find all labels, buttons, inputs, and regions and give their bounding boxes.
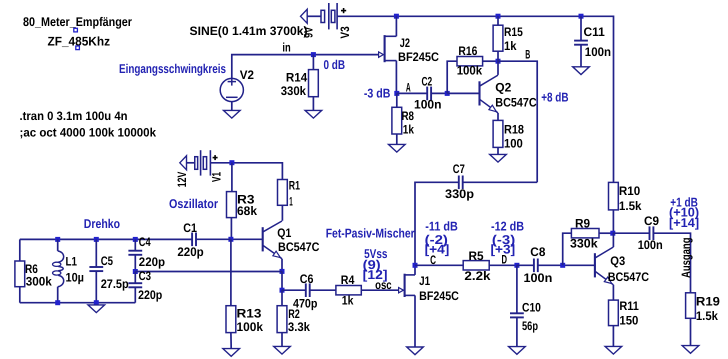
blue annotation [+3] [491, 242, 516, 257]
svg-text:1k: 1k [403, 123, 414, 137]
label R3 [237, 193, 255, 207]
ground under tank [88, 305, 105, 313]
voltage source V1 battery [180, 150, 218, 175]
resistor R14 [309, 70, 319, 97]
wire R5 to node D [489, 264, 517, 266]
junction R15 top on rail [496, 14, 501, 19]
wire +9V top rail [337, 16, 613, 182]
value 150 of R11 [619, 313, 638, 327]
svg-text:220p: 220p [139, 255, 166, 269]
label R5 [469, 249, 484, 263]
wire down to R2 [281, 290, 283, 306]
wire V1 node down to R3 [231, 163, 233, 192]
blue annotation (-2) [425, 232, 448, 247]
wire C11 bottom lead [580, 45, 582, 67]
svg-text:R1: R1 [289, 179, 300, 193]
svg-text:R16: R16 [458, 44, 477, 58]
wire R13 down [230, 239, 232, 305]
wire R6 bottom lead [19, 287, 21, 303]
svg-text:BF245C: BF245C [419, 289, 459, 303]
capacitor C5 [89, 267, 103, 271]
wire node B [498, 61, 537, 182]
label C4 [139, 235, 151, 249]
svg-text:BC547C: BC547C [608, 270, 649, 284]
wire Q3 collector up [612, 233, 614, 247]
ground under R11 [605, 346, 622, 354]
value 100n of C8 [524, 271, 553, 285]
svg-text:R13: R13 [237, 307, 262, 321]
wire Q1 base [231, 238, 262, 240]
capacitor C7 [459, 176, 463, 190]
junction C1-R3-base node [228, 237, 233, 242]
label BF245C of J2 [398, 50, 439, 64]
value 1.5k of R10 [619, 199, 642, 213]
resistor R11 [609, 300, 619, 326]
svg-text:1k: 1k [504, 39, 517, 53]
ground under R8 [389, 144, 406, 152]
net label in [282, 40, 290, 54]
value 3.3k of R2 [288, 320, 310, 334]
wire C11 top lead [580, 16, 582, 40]
svg-text:+8 dB: +8 dB [541, 89, 568, 104]
junction C11 on rail [579, 14, 584, 19]
transistor Q2 [480, 75, 499, 113]
junction C5 bottom [94, 300, 99, 305]
svg-text:R15: R15 [504, 25, 523, 39]
label R9 [575, 216, 590, 230]
wire tank tap to emitter [135, 271, 282, 273]
svg-text:L1: L1 [66, 254, 78, 268]
svg-text:C10: C10 [522, 300, 541, 314]
wire J2 source down [395, 61, 397, 94]
label R10 [619, 184, 640, 198]
value 1k of R15 [504, 39, 517, 53]
net label B [525, 48, 530, 62]
ground under R13 [223, 349, 240, 357]
svg-text:100k: 100k [237, 320, 264, 334]
wire C1 to base node [196, 238, 231, 240]
label C7 [453, 162, 465, 176]
value 68k of R3 [237, 204, 257, 218]
wire collector to C9 [613, 232, 649, 234]
svg-text:100n: 100n [638, 238, 663, 252]
value 330p of C7 [445, 187, 474, 201]
svg-text:R11: R11 [619, 299, 639, 313]
svg-text:R18: R18 [504, 123, 524, 137]
svg-text:220p: 220p [177, 245, 204, 259]
label C2 [422, 75, 433, 89]
capacitor C1 [192, 233, 196, 247]
svg-text:Drehko: Drehko [84, 216, 120, 231]
junction J2 drain on rail [394, 14, 399, 19]
svg-text:R14: R14 [286, 70, 307, 84]
svg-text:Q1: Q1 [277, 226, 291, 240]
voltage source V2 [220, 78, 243, 102]
svg-text:R5: R5 [469, 249, 484, 263]
value 470p of C6 [293, 296, 318, 310]
svg-text:;ac oct 4000 100k 10000k: ;ac oct 4000 100k 10000k [20, 125, 157, 139]
resistor R5 [463, 261, 489, 270]
label R15 [504, 25, 523, 39]
wire C5 bottom lead [95, 271, 97, 303]
svg-text:BC547C: BC547C [495, 96, 536, 110]
label C9 [644, 214, 659, 228]
label R16 [458, 44, 477, 58]
svg-text:[+4]: [+4] [425, 242, 450, 257]
svg-text:C9: C9 [644, 214, 659, 228]
svg-text:470p: 470p [293, 296, 318, 310]
capacitor C8 [534, 259, 538, 273]
wire L1 bottom lead [57, 287, 59, 303]
title line 1 [23, 15, 132, 29]
capacitor C4 [128, 251, 142, 255]
voltage source V3 battery [301, 3, 347, 29]
blue annotation 0 dB [324, 57, 346, 72]
transistor Q3 [595, 247, 614, 285]
svg-text:C3: C3 [139, 269, 151, 283]
resistor R4 [336, 286, 361, 295]
wire node D to C8 [517, 264, 534, 266]
svg-text:Q3: Q3 [610, 254, 625, 268]
blue annotation [12] [363, 267, 388, 282]
junction Q3 collector node [610, 231, 615, 236]
svg-text:Oszillator: Oszillator [169, 196, 218, 211]
junction R9 tap [560, 263, 565, 268]
text anchor marker 2 [76, 46, 80, 50]
svg-text:C5: C5 [101, 254, 113, 268]
label C8 [530, 245, 545, 259]
label L1 [66, 254, 78, 268]
junction C6 tap [280, 288, 285, 293]
svg-text:V1: V1 [209, 172, 223, 182]
svg-text:1k: 1k [342, 293, 354, 307]
label 12V [175, 171, 189, 187]
ground under J1 [407, 347, 424, 355]
label R13 [237, 307, 262, 321]
svg-text:Q2: Q2 [495, 81, 511, 95]
net label osc [375, 278, 392, 292]
resistor R16 [457, 57, 483, 66]
svg-text:Eingangsschwingkreis: Eingangsschwingkreis [119, 61, 226, 76]
wire R8 bottom lead [396, 134, 398, 144]
ground under C10 [509, 347, 526, 355]
wire R1 to Q1 collector [281, 205, 283, 221]
value 100n of C9 [638, 238, 663, 252]
label V2 [240, 68, 254, 82]
capacitor C6 [306, 283, 310, 297]
value 1k of R8 [403, 123, 414, 137]
blue annotation (+10) [669, 205, 699, 220]
junction tank tap [133, 269, 138, 274]
value 330k of R9 [570, 237, 598, 251]
svg-text:BC547C: BC547C [278, 240, 320, 254]
wire R10 bottom lead [612, 210, 614, 233]
svg-text:R8: R8 [402, 109, 415, 123]
wire R19 bottom lead [690, 318, 692, 345]
value 2.2k of R5 [464, 269, 490, 283]
svg-text:220p: 220p [138, 288, 163, 302]
ground under R18 [490, 154, 507, 162]
svg-text:J1: J1 [419, 274, 430, 288]
blue annotation -3 dB [364, 85, 391, 100]
value 27.5p of C5 [101, 277, 129, 291]
label J1 [419, 274, 430, 288]
wire R14 bottom lead [312, 97, 314, 111]
capacitor C10 [510, 313, 524, 317]
value 220p of C3 [138, 288, 163, 302]
label V1 [209, 172, 223, 182]
svg-text:B: B [525, 48, 530, 62]
label C1 [183, 221, 197, 235]
wire J1 drain up [414, 265, 416, 275]
svg-text:J2: J2 [400, 36, 410, 50]
wire C4 bottom lead [134, 255, 136, 272]
label BC547C of Q2 [495, 96, 536, 110]
svg-text:330p: 330p [445, 187, 474, 201]
net label D [502, 252, 508, 266]
capacitor C9 [650, 226, 654, 240]
value 100n of C2 [414, 98, 442, 112]
wire R15 bottom lead [497, 51, 499, 61]
label R8 [402, 109, 415, 123]
net label C [430, 253, 436, 267]
svg-text:.tran 0 3.1m 100u 4n: .tran 0 3.1m 100u 4n [20, 109, 128, 123]
wire C10 top lead [516, 265, 518, 313]
junction R14 tap [311, 52, 316, 57]
resistor R2 [277, 306, 287, 333]
jfet J2 [379, 35, 397, 62]
value 100k of R16 [457, 64, 483, 78]
label SINE directive [190, 24, 308, 38]
svg-text:56p: 56p [522, 319, 538, 333]
capacitor C11 [574, 41, 588, 45]
value 100n of C11 [585, 45, 611, 59]
value 220p of C4 [139, 255, 166, 269]
label BC547C of Q1 [278, 240, 320, 254]
junction C4 top [133, 237, 138, 242]
ground under R14 [305, 110, 322, 118]
wire R13 bottom lead [230, 333, 232, 349]
label R1 [289, 179, 300, 193]
blue annotation [+14] [669, 215, 699, 230]
svg-text:300k: 300k [26, 274, 52, 288]
svg-text:330k: 330k [281, 84, 306, 98]
wire R15 top lead [497, 16, 499, 25]
wire C6 to R4 [310, 289, 336, 291]
value 100k of R13 [237, 320, 264, 334]
label Q1 [277, 226, 291, 240]
resistor R8 [392, 107, 402, 134]
svg-text:330k: 330k [570, 237, 598, 251]
ground under V2 [224, 110, 241, 118]
wire R9 right lead [599, 232, 613, 234]
label 9V [302, 26, 316, 38]
resistor R1 [278, 180, 288, 206]
svg-text:27.5p: 27.5p [101, 277, 129, 291]
resistor R3 [227, 192, 237, 218]
wire R6 left top [19, 239, 21, 261]
wire R2 bottom lead [281, 333, 283, 347]
wire V1 plus to R1 [210, 163, 282, 180]
wire Q3 emitter down [612, 285, 614, 300]
wire R4 to J1 gate [361, 289, 399, 291]
wire C3 top lead [134, 272, 136, 284]
label C6 [300, 272, 314, 286]
wire B to C7 [463, 181, 538, 183]
wire R16 right lead [483, 60, 498, 62]
svg-text:R4: R4 [341, 273, 355, 287]
title line 2 [48, 35, 111, 49]
svg-text:1: 1 [289, 194, 293, 208]
label R19 [696, 294, 720, 308]
svg-text:Fet-Pasiv-Mischer: Fet-Pasiv-Mischer [326, 225, 415, 240]
value 10u of L1 [66, 271, 85, 285]
junction L1 top [55, 237, 60, 242]
wire tank top [20, 238, 192, 240]
wire R8 top lead [396, 93, 398, 107]
junction V1 node [229, 160, 234, 165]
net label Ausgang [679, 238, 693, 279]
svg-text:C1: C1 [183, 221, 197, 235]
junction Q2 collector node [496, 59, 501, 64]
svg-text:100n: 100n [524, 271, 553, 285]
svg-text:80_Meter_Empfänger: 80_Meter_Empfänger [23, 15, 132, 29]
wire node A to C2 [397, 92, 427, 94]
svg-text:Ausgang: Ausgang [679, 238, 693, 279]
label C11 [584, 25, 605, 39]
blue annotation -11 dB [425, 218, 458, 233]
svg-text:100: 100 [504, 136, 523, 150]
resistor R19 [686, 293, 696, 319]
svg-text:BF245C: BF245C [398, 50, 439, 64]
junction node A [394, 91, 399, 96]
svg-text:C4: C4 [139, 235, 151, 249]
label Q3 [610, 254, 625, 268]
capacitor C3 [128, 283, 142, 287]
capacitor C2 [427, 87, 431, 101]
jfet J1 [399, 274, 415, 297]
label R6 [25, 262, 38, 276]
label R18 [504, 123, 524, 137]
value 1k of R4 [342, 293, 354, 307]
resistor R15 [493, 25, 503, 51]
svg-text:[+3]: [+3] [491, 242, 516, 257]
wire C10 bottom lead [516, 317, 518, 346]
junction node C [413, 263, 418, 268]
wire V2 to ground [231, 102, 233, 111]
svg-text:C11: C11 [584, 25, 605, 39]
value 100 of R18 [504, 136, 523, 150]
svg-text:3.3k: 3.3k [288, 320, 310, 334]
svg-text:68k: 68k [237, 204, 257, 218]
svg-text:V3: V3 [338, 26, 352, 38]
blue annotation +8 dB [541, 89, 568, 104]
label V3 [338, 26, 352, 38]
resistor R18 [493, 120, 503, 147]
svg-text:100k: 100k [457, 64, 483, 78]
svg-text:2.2k: 2.2k [464, 269, 490, 283]
resistor R13 [226, 306, 236, 333]
blue annotation +1 dB [670, 195, 698, 210]
label R14 [286, 70, 307, 84]
label Q2 [495, 81, 511, 95]
label R11 [619, 299, 639, 313]
svg-text:R10: R10 [619, 184, 640, 198]
value 330k [281, 84, 306, 98]
junction C5 top [94, 237, 99, 242]
svg-text:10µ: 10µ [66, 271, 85, 285]
label J2 [400, 36, 410, 50]
label BC547C of Q3 [608, 270, 649, 284]
svg-text:1.5k: 1.5k [696, 309, 718, 323]
wire base node up to R16 [447, 61, 457, 93]
value 1.5k of R19 [696, 309, 718, 323]
blue comment Drehko [84, 216, 120, 231]
blue comment Fet-Pasiv-Mischer [326, 225, 415, 240]
svg-text:C8: C8 [530, 245, 545, 259]
wire emitter to C6 [282, 289, 306, 291]
resistor R9 [571, 229, 599, 238]
svg-text:-3 dB: -3 dB [364, 85, 391, 100]
label R4 [341, 273, 355, 287]
wire Q2 base wire [447, 92, 479, 94]
label BF245C of J1 [419, 289, 459, 303]
wire Q2 collector up [497, 61, 499, 75]
value 1 of R1 [289, 194, 293, 208]
value 220p of C1 [177, 245, 204, 259]
svg-text:A: A [406, 80, 411, 94]
junction Q2 base node [445, 91, 450, 96]
spice directive ;ac [20, 125, 157, 139]
junction L1 bottom [55, 300, 60, 305]
inductor L1 [53, 251, 64, 287]
svg-text:150: 150 [619, 313, 638, 327]
svg-text:V2: V2 [240, 68, 254, 82]
blue comment Eingangsschwingkreis [119, 61, 226, 76]
wire in node [232, 55, 380, 79]
svg-text:0 dB: 0 dB [324, 57, 346, 72]
blue annotation 5Vss [364, 246, 387, 261]
label C10 [522, 300, 541, 314]
wire Q1 emitter down [281, 259, 283, 272]
ground under R2 [274, 346, 291, 354]
svg-text:in: in [282, 40, 290, 54]
text anchor marker 1 [74, 28, 78, 32]
blue annotation (9) [363, 257, 381, 272]
label R2 [288, 307, 300, 321]
wire R11 bottom lead [612, 326, 614, 347]
blue comment Oszillator [169, 196, 218, 211]
wire node C to R5 [415, 264, 463, 266]
wire C7 to node C [415, 182, 459, 265]
wire Q2 emitter to R18 [497, 113, 499, 120]
value 300k of R6 [26, 274, 52, 288]
wire J1 source down [414, 295, 416, 347]
value 56p of C10 [522, 319, 538, 333]
wire L1 top lead [57, 239, 59, 251]
svg-text:C6: C6 [300, 272, 314, 286]
net label A [406, 80, 411, 94]
label C3 [139, 269, 151, 283]
junction node D [514, 263, 519, 268]
wire R9 left leg [563, 233, 572, 265]
resistor R10 [609, 182, 619, 210]
wire C2 to base junction [431, 92, 447, 94]
svg-text:R19: R19 [696, 294, 720, 308]
svg-text:100n: 100n [585, 45, 611, 59]
svg-text:1.5k: 1.5k [619, 199, 642, 213]
svg-text:C7: C7 [453, 162, 465, 176]
